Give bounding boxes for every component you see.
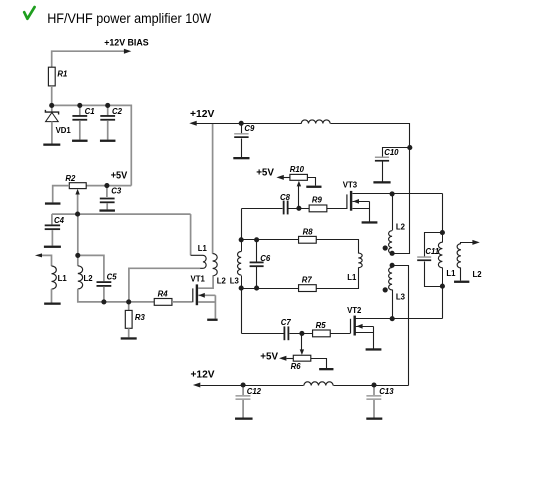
svg-text:+5V: +5V — [260, 352, 278, 363]
node C11 top — [440, 230, 445, 235]
arrowhead input — [35, 253, 42, 257]
wire L3 out feed — [393, 266, 409, 386]
wire R10 wiper — [298, 185, 300, 209]
phasing dot top — [383, 245, 388, 250]
node C10 — [407, 145, 412, 150]
potentiometer R6 — [293, 355, 311, 361]
wire row y240 — [242, 239, 299, 241]
svg-text:L1: L1 — [198, 244, 208, 253]
node R1/VD1 — [49, 103, 54, 108]
node C2 — [105, 103, 110, 108]
node C6 bottom — [254, 286, 259, 291]
wire C12 stub — [242, 385, 244, 395]
transistor VT2 channel bar — [354, 316, 356, 336]
wire C11 bottom branch — [425, 262, 443, 287]
capacitor C2 — [100, 115, 115, 117]
wire C6 bottom stub — [256, 267, 258, 289]
arrowhead R2 wiper — [75, 189, 79, 195]
wire L1 to ground — [51, 289, 53, 302]
transistor VT3 channel bar — [350, 191, 352, 211]
capacitor C11 — [417, 256, 431, 258]
svg-text:L3: L3 — [230, 277, 240, 286]
wire +12V bottom rail right — [334, 385, 409, 387]
wire VT2 source — [356, 332, 374, 334]
wire L2 output to ground — [460, 268, 462, 281]
svg-text:C11: C11 — [425, 247, 439, 256]
wire drain top corner down — [442, 194, 444, 233]
wire R6 wiper — [301, 334, 303, 351]
capacitor C13 — [366, 395, 381, 397]
wire C5 bottom — [103, 287, 105, 302]
wire C1 — [79, 105, 81, 115]
wire R9 to VT3 gate — [327, 208, 347, 210]
node C13 — [371, 382, 376, 387]
svg-text:C8: C8 — [280, 193, 291, 202]
node L3 out top — [390, 263, 395, 268]
wire meander to R3 node — [129, 268, 200, 302]
svg-text:+12V: +12V — [190, 109, 215, 120]
capacitor C10 — [375, 157, 389, 159]
wire R5 to VT2 gate — [331, 333, 351, 335]
transistor VT1 gate bar — [192, 288, 193, 302]
svg-text:C6: C6 — [260, 254, 271, 263]
wire VT1 source to ground — [214, 295, 216, 318]
ground R3 — [121, 337, 137, 339]
wire C10 — [383, 148, 410, 157]
wire C8 to R9 — [289, 208, 310, 210]
svg-text:C7: C7 — [281, 318, 292, 327]
arrowhead VT2 substrate — [356, 324, 362, 329]
capacitor C9 — [234, 133, 248, 134]
transistor VT1 channel bar — [196, 284, 198, 305]
arrowhead VT1 substrate — [199, 293, 205, 298]
wire left rail to C8 — [242, 208, 283, 210]
svg-text:L2: L2 — [473, 270, 483, 279]
inductor L1 mid — [358, 253, 362, 268]
node R10 wiper junction — [296, 206, 301, 211]
wire +12V bottom rail — [201, 385, 304, 387]
wire L2 coil to drain — [212, 276, 215, 288]
svg-text:R6: R6 — [291, 362, 302, 371]
node R6 wiper junction — [299, 331, 304, 336]
svg-text:L1: L1 — [446, 269, 456, 278]
svg-text:L2: L2 — [396, 222, 406, 231]
wire L3 tank top stub — [241, 240, 243, 252]
wire VD1 top — [51, 105, 53, 112]
svg-text:C5: C5 — [107, 272, 118, 281]
svg-text:C2: C2 — [112, 107, 123, 116]
wire row y288 — [242, 288, 299, 290]
node C5 bottom — [101, 299, 106, 304]
wire arrow to R6 — [287, 358, 294, 360]
node C9 — [239, 121, 244, 126]
wire VT1 substrate — [198, 294, 215, 296]
wire C2 — [107, 105, 109, 115]
svg-text:R10: R10 — [290, 165, 305, 174]
inductor L2 output — [457, 244, 461, 268]
wire R4 to VT1 gate — [172, 301, 192, 303]
node L2 top — [75, 253, 80, 258]
ground C12 — [235, 418, 253, 420]
svg-text:R2: R2 — [65, 174, 76, 183]
wire C9 to ground — [241, 139, 243, 158]
inductor choke top — [301, 120, 330, 124]
wire C7 row left — [242, 333, 284, 335]
svg-text:L1: L1 — [347, 273, 357, 282]
svg-text:+12V BIAS: +12V BIAS — [104, 37, 149, 47]
wire y302 line — [104, 301, 154, 303]
node C3 — [104, 183, 109, 188]
svg-text:R9: R9 — [312, 195, 323, 204]
wire C3 to ground — [106, 203, 108, 209]
ground C9 — [233, 157, 249, 159]
wire to VT2 drain line — [442, 287, 444, 319]
transistor VT2 gate bar — [350, 319, 351, 333]
wire C13 to ground — [373, 400, 375, 418]
phasing dot bottom — [383, 287, 388, 292]
inductor L2 input — [78, 266, 83, 289]
node C12 — [241, 382, 246, 387]
wire y214 line — [52, 213, 191, 215]
svg-text:C9: C9 — [244, 124, 255, 133]
ground L1 input — [44, 303, 61, 305]
wire input — [42, 255, 52, 266]
wire C2 to ground — [107, 120, 109, 139]
wire C7 to R5 — [290, 333, 313, 335]
node L1 out bottom — [440, 284, 445, 289]
wire bias rail y105 — [52, 105, 132, 185]
resistor R8 — [299, 236, 317, 243]
svg-text:C13: C13 — [379, 387, 394, 396]
arrowhead output — [472, 240, 479, 245]
arrowhead +12V top — [189, 121, 196, 126]
wire +12V BIAS rail — [52, 51, 125, 67]
wire VT1 drain — [198, 276, 213, 288]
node L3 bottom — [239, 286, 244, 291]
wire R2 left to ground — [53, 186, 70, 203]
wire output arrow line — [461, 243, 473, 244]
wire C12 to ground — [242, 400, 244, 418]
svg-text:L3: L3 — [396, 293, 406, 302]
ground L2 output — [454, 281, 469, 283]
capacitor C12 — [236, 395, 251, 397]
ground C2 — [100, 140, 116, 142]
wire C3 stub — [106, 186, 108, 197]
svg-text:C4: C4 — [54, 216, 65, 225]
wire VT1 source — [198, 301, 215, 303]
svg-text:+5V: +5V — [256, 167, 274, 178]
wire C4 stub — [51, 214, 53, 224]
svg-text:R8: R8 — [303, 228, 314, 237]
wire C10 to ground — [382, 162, 384, 182]
wire L1 out top stub — [442, 233, 444, 243]
resistor R9 — [309, 205, 327, 212]
ground VT3 — [362, 221, 378, 223]
wire C6 top stub — [256, 240, 258, 262]
ground R6 — [319, 368, 333, 370]
node R2 wiper junction — [75, 212, 80, 217]
ground C10 — [373, 181, 390, 183]
wire +12V rail — [197, 123, 302, 125]
wire C1 to ground — [79, 120, 81, 139]
inductor L2 out — [389, 231, 393, 254]
svg-text:L1: L1 — [58, 274, 68, 283]
wire arrow to R10 — [284, 177, 291, 179]
svg-text:HF/VHF power amplifier 10W: HF/VHF power amplifier 10W — [47, 11, 211, 26]
ground R2 — [45, 202, 61, 204]
potentiometer R2 — [69, 183, 86, 189]
inductor choke bottom — [304, 382, 333, 386]
inductor L3 out — [389, 268, 393, 290]
wire VD1 to ground — [51, 122, 53, 144]
wire node to C5 — [78, 255, 104, 281]
svg-text:C1: C1 — [85, 107, 95, 116]
capacitor C7 — [284, 326, 286, 340]
ground C1 — [72, 140, 88, 142]
node VT3 drain — [390, 191, 395, 196]
wire +12V to L2 drain coil — [212, 123, 214, 253]
wire R2 wiper — [77, 193, 79, 214]
svg-text:+12V: +12V — [191, 370, 215, 381]
wire VT3 to ground — [369, 202, 371, 222]
ground VD1 — [43, 144, 60, 146]
wire L3 tank bottom stub — [241, 276, 243, 289]
svg-text:C3: C3 — [111, 187, 122, 196]
wire VT2 drain — [356, 318, 443, 320]
wire L3 out bottom stub — [392, 290, 394, 319]
svg-text:+5V: +5V — [111, 171, 128, 182]
svg-text:VT2: VT2 — [347, 306, 362, 315]
svg-text:VD1: VD1 — [56, 126, 72, 135]
wire R8 to L1 mid — [317, 240, 359, 254]
ground VT2 — [366, 348, 382, 350]
wire C4 to bar — [51, 230, 53, 246]
svg-text:L2: L2 — [217, 277, 227, 286]
arrowhead +12V BIAS — [124, 49, 131, 54]
inductor L1 input — [52, 266, 57, 289]
diode VD1 — [45, 110, 58, 115]
capacitor C6 — [250, 262, 264, 264]
wire VT3 drain — [353, 193, 443, 195]
svg-text:L2: L2 — [84, 274, 94, 283]
capacitor C5 — [97, 281, 112, 283]
inductor L2 drain coil — [213, 254, 218, 276]
resistor R4 — [154, 299, 172, 306]
resistor R3 — [125, 310, 132, 328]
transistor VT3 gate bar — [346, 194, 347, 209]
node C6 top — [254, 237, 259, 242]
wire C9 stub — [241, 124, 243, 134]
wire L1 out bottom stub — [442, 268, 444, 287]
capacitor C3 — [100, 198, 115, 200]
node C1 — [77, 103, 82, 108]
wire VT2 to ground — [373, 327, 375, 349]
wire C13 stub — [373, 385, 375, 395]
resistor R5 — [313, 330, 331, 337]
svg-text:R5: R5 — [316, 321, 327, 330]
wire VT3 substrate — [353, 201, 370, 203]
wire +5V to R2 — [86, 185, 131, 187]
arrowhead +5V R10 — [276, 175, 283, 180]
arrowhead R6 wiper — [300, 349, 304, 355]
wire R3 to ground — [128, 328, 130, 337]
svg-text:VT1: VT1 — [191, 275, 206, 284]
green checkmark — [24, 7, 34, 19]
wire L2 bottom — [78, 289, 104, 302]
wire R10 right to ground — [308, 178, 316, 186]
wire C11 left branch — [425, 233, 443, 257]
wire C8 corner down — [241, 209, 243, 240]
capacitor C4 — [45, 224, 60, 226]
svg-text:R1: R1 — [57, 70, 67, 79]
svg-text:R3: R3 — [135, 313, 146, 322]
wire riser x190 — [190, 214, 192, 255]
svg-text:C10: C10 — [384, 148, 399, 157]
node L3 top — [239, 237, 244, 242]
ground C13 — [366, 418, 382, 420]
inductor L1 out — [438, 242, 442, 268]
wire R6 right to ground — [311, 359, 327, 369]
node L2 out bottom — [390, 251, 395, 256]
wire VT3 source — [353, 208, 370, 210]
svg-text:VT3: VT3 — [343, 180, 358, 189]
capacitor C8 — [283, 201, 285, 215]
potentiometer R10 — [290, 174, 308, 180]
resistor R1 — [48, 67, 55, 86]
svg-text:R7: R7 — [302, 275, 313, 284]
wire left rail down to C7 row — [241, 289, 243, 334]
arrowhead VT3 substrate — [353, 199, 359, 204]
arrowhead +5V R6 — [279, 356, 286, 361]
wire L2 top node line — [77, 214, 79, 266]
wire R1 to node — [51, 86, 53, 106]
ground C4 — [44, 246, 61, 248]
node R3/R4 — [126, 299, 131, 304]
arrowhead R10 wiper — [297, 181, 301, 187]
wire L1 mid bottom — [317, 268, 359, 289]
wire L2 out top stub — [392, 194, 394, 231]
resistor R7 — [299, 285, 317, 292]
wire VT2 substrate — [356, 326, 374, 328]
svg-text:C12: C12 — [247, 387, 262, 396]
inductor L1 meander — [191, 255, 207, 268]
svg-text:R4: R4 — [158, 290, 169, 299]
ground VT1 — [207, 319, 217, 321]
wire +12V rail right — [331, 124, 410, 254]
node VT2 drain — [390, 316, 395, 321]
inductor L3 tank — [238, 252, 242, 276]
capacitor C1 — [72, 115, 87, 117]
ground C3 — [99, 209, 115, 211]
arrowhead +12V bottom — [193, 383, 200, 388]
ground R10 — [306, 186, 321, 188]
wire R3 top — [128, 302, 130, 311]
